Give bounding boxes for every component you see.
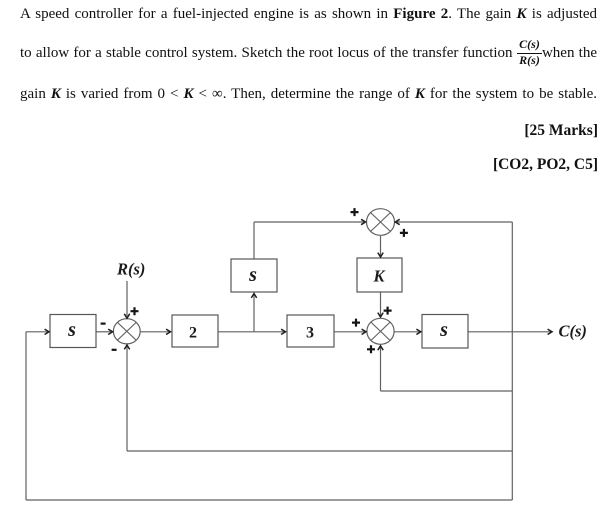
svg-text:R(s): R(s) (116, 260, 145, 279)
svg-text:3: 3 (306, 325, 314, 342)
svg-text:s: s (67, 319, 76, 341)
svg-text:s: s (439, 319, 448, 341)
svg-text:C(s): C(s) (559, 322, 587, 341)
svg-text:s: s (248, 264, 257, 286)
svg-text:2: 2 (189, 325, 197, 342)
svg-text:K: K (372, 267, 385, 286)
